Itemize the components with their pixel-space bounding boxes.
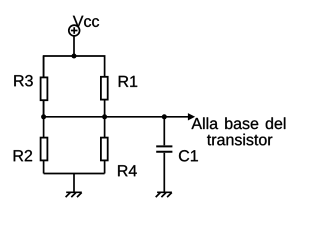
resistor R1	[101, 77, 108, 100]
wire C1 top lead	[163, 117, 165, 146]
label Vcc	[73, 16, 99, 27]
label C1	[179, 150, 198, 161]
resistor R3	[41, 77, 48, 100]
resistor R2	[41, 138, 48, 161]
node junction left mid	[41, 114, 46, 119]
wire left branch upper (R3 top lead)	[43, 56, 45, 77]
label R2	[14, 150, 32, 161]
wire right branch lower (R4 top lead)	[104, 117, 106, 138]
label R1	[119, 76, 137, 87]
node junction C1 tap	[162, 114, 167, 119]
node junction at top rail	[72, 54, 77, 59]
label R3	[14, 75, 32, 86]
wire R3 bottom lead	[43, 100, 45, 117]
label output: Alla base del	[191, 117, 285, 129]
wire ground stub	[73, 174, 75, 193]
wire top rail	[44, 56, 105, 117]
node junction right mid	[102, 114, 107, 119]
wire middle rail to output	[44, 116, 189, 118]
ground (under C1)	[156, 192, 172, 197]
arrowhead to base	[188, 113, 195, 120]
resistor R4	[101, 138, 108, 161]
capacitor C1	[156, 146, 172, 151]
wire C1 bottom lead	[163, 153, 165, 193]
wire bottom rail	[44, 173, 105, 175]
label R4	[118, 165, 137, 176]
wire R4 bottom lead	[104, 160, 106, 173]
power symbol Vcc (circle with plus)	[69, 25, 80, 36]
wire R2 bottom lead	[43, 160, 45, 173]
label output: transistor	[207, 134, 272, 146]
wire Vcc to top rail	[73, 36, 75, 56]
ground (under divider)	[66, 192, 82, 197]
wire left branch lower (R2 top lead)	[43, 117, 45, 138]
wire R1 bottom lead	[104, 100, 106, 117]
